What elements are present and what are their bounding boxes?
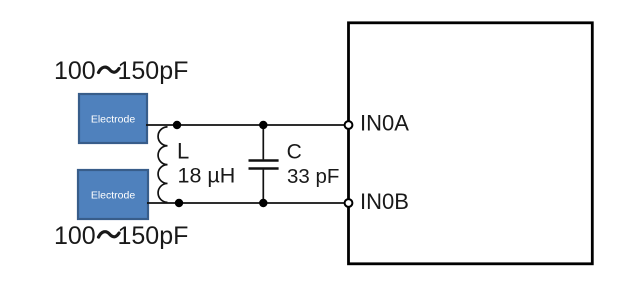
wire: top electrode to pin IN0A (net IN0A): [146, 124, 345, 126]
value label: 33 pF (capacitor value): [287, 165, 339, 188]
junction: L1 top node on net IN0A: [173, 121, 181, 129]
svg-text:100: 100: [54, 222, 96, 250]
svg-text:IN0B: IN0B: [360, 189, 409, 214]
label: 100~150pF (bottom electrode capacitance value): [54, 222, 188, 250]
junction: C1 bottom node on net IN0B: [259, 199, 267, 207]
value label: L (inductor ref): [177, 139, 189, 164]
svg-text:150pF: 150pF: [118, 57, 189, 85]
svg-text:150pF: 150pF: [118, 222, 189, 250]
inductor L1 (coil, 4 arcs): [158, 127, 167, 202]
pin label: IN0B: [360, 189, 409, 214]
svg-text:100: 100: [54, 57, 96, 85]
svg-text:33 pF: 33 pF: [287, 165, 339, 188]
junction: C1 top node on net IN0A: [259, 121, 267, 129]
svg-text:L: L: [177, 139, 189, 164]
svg-text:Electrode: Electrode: [91, 190, 136, 202]
junction: L1 bottom node on net IN0B: [175, 199, 183, 207]
electrode E2 (bottom electrode block): [78, 170, 148, 219]
svg-text:C: C: [287, 140, 302, 163]
wire: bottom electrode to pin IN0B (net IN0B): [147, 202, 345, 204]
svg-text:Electrode: Electrode: [91, 114, 136, 126]
capacitor C1 (33 pF, plates): [249, 125, 279, 203]
pin IN0B (open-circle terminal on IC left edge): [345, 199, 353, 207]
svg-text:18 µH: 18 µH: [178, 164, 236, 188]
pin IN0A (open-circle terminal on IC left edge): [345, 121, 353, 129]
pin label: IN0A: [360, 111, 409, 136]
svg-text:IN0A: IN0A: [360, 111, 409, 136]
IC U1 (chip body): [349, 23, 593, 264]
electrode E1 (top electrode block): [79, 94, 147, 143]
value label: C (capacitor ref): [287, 140, 302, 163]
value label: 18 uH (inductor value): [178, 164, 236, 188]
label: 100~150pF (top electrode capacitance value): [54, 57, 188, 85]
